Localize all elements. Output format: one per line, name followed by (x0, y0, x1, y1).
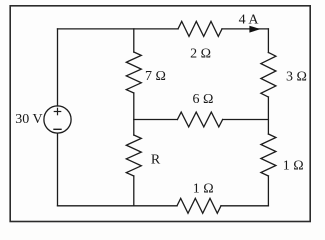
svg-text:2 Ω: 2 Ω (190, 47, 211, 62)
wire right vertical lower (267, 176, 269, 206)
svg-text:6 Ω: 6 Ω (193, 92, 214, 107)
wire middle horizontal left (134, 119, 178, 121)
current arrow 4A (249, 26, 260, 33)
wire right vertical to middle node (267, 97, 269, 134)
resistor R2 2ohm zigzag (178, 21, 222, 36)
wire left vertical lower (57, 133, 59, 206)
wire bottom-left horizontal (58, 205, 178, 207)
resistor R7 7ohm zigzag (126, 52, 141, 93)
wire top-left horizontal (58, 28, 179, 30)
wire bottom-right horizontal (221, 205, 268, 207)
wire R branch bottom stub (133, 176, 135, 206)
svg-text:R: R (151, 152, 161, 167)
voltage source V1 circle (44, 106, 71, 133)
svg-text:1 Ω: 1 Ω (193, 182, 214, 197)
resistor R6 6ohm zigzag (177, 112, 222, 127)
wire right vertical upper (267, 29, 269, 53)
wire middle horizontal right (223, 119, 269, 121)
svg-text:3 Ω: 3 Ω (286, 69, 307, 84)
svg-text:1 Ω: 1 Ω (283, 159, 304, 174)
resistor R3 3ohm zigzag (261, 53, 276, 98)
resistor R1b 1ohm bottom zigzag (177, 198, 221, 213)
svg-text:4 A: 4 A (239, 12, 260, 27)
svg-text:30 V: 30 V (15, 112, 42, 127)
voltage source plus sign (54, 108, 60, 114)
voltage source minus sign (54, 128, 61, 130)
wire 7ohm branch top stub (133, 29, 135, 52)
wire top-right horizontal (222, 28, 268, 30)
resistor R unknown zigzag (126, 135, 141, 176)
resistor R1r 1ohm right zigzag (261, 134, 276, 176)
svg-text:7 Ω: 7 Ω (145, 69, 166, 84)
wire 7ohm branch bottom stub (133, 93, 135, 135)
wire left vertical upper (57, 29, 59, 106)
